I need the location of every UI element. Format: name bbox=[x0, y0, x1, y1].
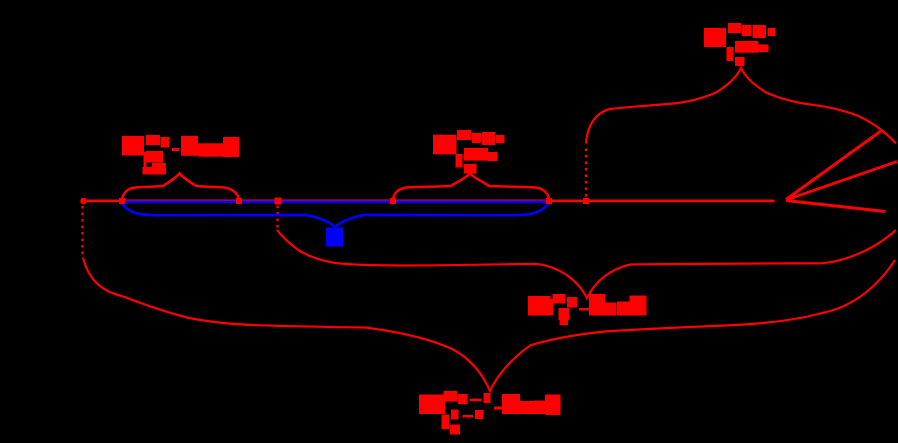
fan segment lower bbox=[786, 201, 885, 212]
point P4 at x=393 bbox=[390, 198, 396, 204]
dotted connector at x=586 (point up to big overbrace) bbox=[585, 148, 587, 197]
blue square label under blue cusp bbox=[326, 228, 344, 247]
underbrace U1 under [277,896] bbox=[277, 230, 896, 298]
label A (above brace A) redacted blocks bbox=[122, 135, 239, 175]
underbrace U2 under [83,895] bbox=[83, 258, 895, 392]
label D (under underbrace 1) redacted blocks bbox=[528, 294, 647, 325]
fan segment middle bbox=[786, 162, 897, 201]
label E (under underbrace 2) redacted blocks bbox=[419, 391, 561, 435]
point P3 at x=278 bbox=[275, 198, 282, 205]
label B (above brace B) redacted blocks bbox=[433, 130, 505, 174]
point P2 at x=239 bbox=[236, 198, 242, 204]
big overbrace C over [586,896] bbox=[586, 68, 896, 144]
blue overlay on main line [122,549] bbox=[123, 201, 548, 204]
fan segment upper bbox=[786, 131, 881, 200]
blue underbrace under [122,549] with cusp at 335 bbox=[123, 204, 549, 227]
dotted connector at x=277.5 (point to underbrace 1) bbox=[276, 206, 278, 230]
point P1 at x=122 bbox=[119, 198, 125, 204]
overbrace A over [122,239] bbox=[122, 173, 239, 200]
point P5 at x=549 bbox=[546, 198, 552, 204]
main number line (red) bbox=[83, 199, 775, 202]
dotted connector at x=82.5 (left point to big underbrace) bbox=[81, 206, 83, 257]
point P6 at x=586 bbox=[583, 198, 589, 204]
overbrace B over [393,549] bbox=[393, 174, 549, 201]
point P0 circle at x=83 bbox=[80, 198, 87, 205]
label C (above big overbrace) redacted blocks bbox=[704, 23, 776, 66]
